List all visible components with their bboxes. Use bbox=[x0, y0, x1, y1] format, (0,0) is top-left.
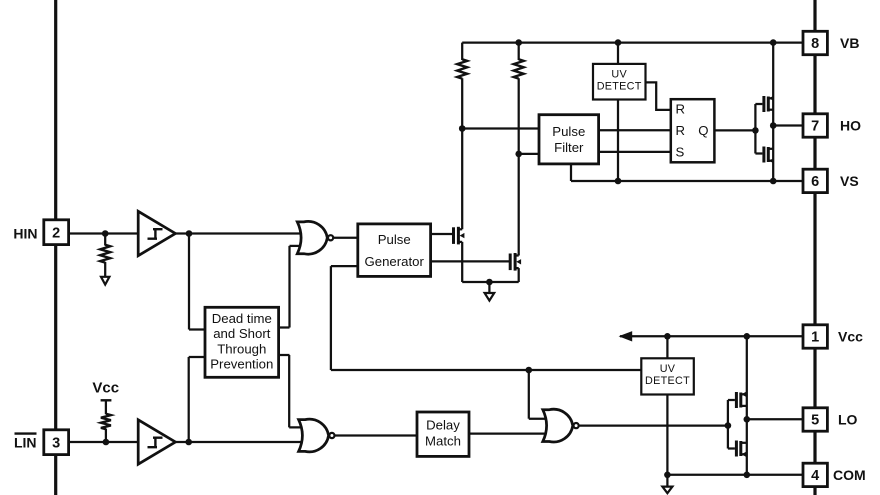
svg-text:1: 1 bbox=[811, 330, 819, 346]
svg-text:DETECT: DETECT bbox=[597, 81, 642, 93]
svg-text:Vcc: Vcc bbox=[838, 329, 863, 345]
svg-text:LIN: LIN bbox=[14, 435, 37, 451]
svg-text:6: 6 bbox=[811, 174, 819, 190]
svg-text:Dead time: Dead time bbox=[212, 311, 272, 326]
svg-text:8: 8 bbox=[811, 36, 819, 52]
svg-text:Through: Through bbox=[217, 341, 266, 356]
svg-text:Generator: Generator bbox=[365, 254, 425, 269]
svg-text:Pulse: Pulse bbox=[378, 232, 411, 247]
svg-text:UV: UV bbox=[660, 363, 676, 375]
svg-text:7: 7 bbox=[811, 119, 819, 135]
svg-text:DETECT: DETECT bbox=[645, 375, 690, 387]
svg-text:R: R bbox=[676, 102, 686, 117]
svg-text:4: 4 bbox=[811, 468, 819, 484]
svg-text:Delay: Delay bbox=[426, 417, 460, 432]
svg-text:Match: Match bbox=[425, 433, 461, 448]
svg-text:VS: VS bbox=[840, 173, 859, 189]
svg-text:S: S bbox=[676, 145, 685, 160]
svg-text:5: 5 bbox=[811, 413, 819, 429]
svg-text:VB: VB bbox=[840, 35, 859, 51]
svg-text:HIN: HIN bbox=[13, 225, 37, 241]
svg-text:3: 3 bbox=[52, 435, 60, 451]
svg-text:HO: HO bbox=[840, 118, 861, 134]
svg-text:COM: COM bbox=[833, 467, 866, 483]
svg-text:Vcc: Vcc bbox=[92, 380, 119, 397]
svg-text:2: 2 bbox=[52, 225, 60, 241]
svg-text:Pulse: Pulse bbox=[552, 124, 585, 139]
svg-text:Q: Q bbox=[698, 123, 708, 138]
svg-text:R: R bbox=[676, 123, 686, 138]
svg-text:and Short: and Short bbox=[213, 326, 271, 341]
svg-text:Filter: Filter bbox=[554, 140, 584, 155]
svg-text:Prevention: Prevention bbox=[210, 357, 273, 372]
svg-text:LO: LO bbox=[838, 411, 858, 427]
svg-text:UV: UV bbox=[611, 69, 627, 81]
